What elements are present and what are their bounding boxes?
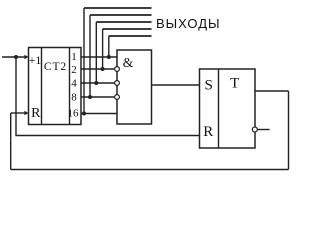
- svg-text:&: &: [123, 55, 134, 70]
- svg-text:2: 2: [71, 64, 77, 76]
- wire vertical riser from out 4: [95, 22, 97, 83]
- wire vertical riser from out 1: [108, 36, 110, 57]
- wire trigger inverted output stub: [257, 129, 269, 131]
- junction out2/riser: [101, 67, 105, 71]
- wire feedback right vertical: [288, 91, 290, 170]
- AND gate U1 body: [117, 50, 152, 124]
- wire counter out 16 to AND input 5: [81, 113, 117, 115]
- wire AND output to S input: [152, 84, 200, 86]
- inversion bubble AND input 4: [115, 95, 120, 100]
- inversion bubble AND input 2: [115, 67, 120, 72]
- junction out8/riser: [88, 95, 92, 99]
- svg-text:16: 16: [68, 108, 80, 120]
- wire vertical riser from out 8: [89, 15, 91, 97]
- wire trigger direct output: [255, 90, 289, 92]
- arrowhead R input: [24, 111, 28, 116]
- svg-text:1: 1: [71, 51, 77, 63]
- output bus line 1 (from counter out 16): [84, 7, 152, 9]
- wire vertical riser from out 2: [102, 29, 104, 69]
- wire counter R input: [11, 112, 25, 114]
- wire counter out 4 to AND input 3: [81, 82, 115, 84]
- arrowhead +1 input: [24, 55, 28, 60]
- wire clock input to +1: [2, 56, 25, 58]
- junction out1/riser: [107, 55, 111, 59]
- counter divider right: [69, 48, 71, 125]
- output bus line 4: [103, 28, 152, 30]
- RS trigger body: [200, 69, 256, 148]
- counter divider left: [41, 48, 43, 125]
- wire feedback left vertical: [10, 113, 12, 170]
- wire counter out 1 to AND input 1: [81, 56, 117, 58]
- output bus line 3: [96, 21, 151, 23]
- wire feedback bottom: [11, 169, 289, 171]
- wire counter out 8 to AND input 4: [81, 96, 115, 98]
- junction out4/riser: [94, 81, 98, 85]
- wire vertical riser from out 16: [83, 8, 85, 114]
- wire branch down to trigger R input: [16, 57, 200, 136]
- counter CT2 body: [29, 48, 82, 125]
- svg-text:R: R: [31, 106, 41, 121]
- svg-text:+1: +1: [29, 53, 42, 67]
- output bus line 5 (from counter out 1): [109, 35, 152, 37]
- svg-text:4: 4: [71, 78, 77, 90]
- junction clock/R branch: [14, 55, 18, 59]
- output bus line 2: [90, 14, 152, 16]
- svg-text:R: R: [203, 124, 213, 140]
- svg-text:T: T: [230, 76, 239, 92]
- wire counter out 2 to AND input 2: [81, 68, 115, 70]
- svg-text:8: 8: [71, 92, 77, 104]
- junction out16/riser: [82, 112, 86, 116]
- svg-text:S: S: [205, 78, 213, 94]
- inversion bubble AND input 3: [115, 81, 120, 86]
- inversion bubble trigger output: [252, 127, 257, 132]
- trigger divider: [218, 69, 220, 148]
- svg-text:CT2: CT2: [44, 61, 67, 73]
- svg-text:ВЫХОДЫ: ВЫХОДЫ: [156, 16, 221, 31]
